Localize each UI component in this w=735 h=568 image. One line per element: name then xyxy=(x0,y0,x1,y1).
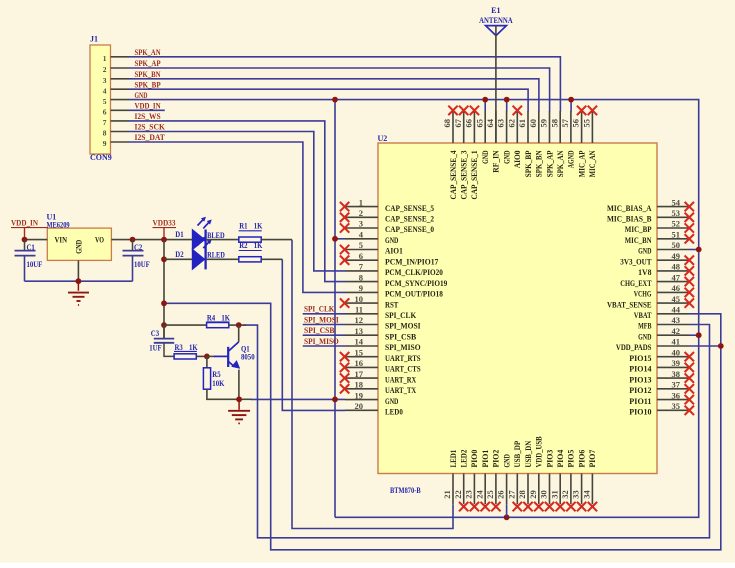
svg-text:6: 6 xyxy=(359,251,363,261)
svg-text:CON9: CON9 xyxy=(90,153,112,162)
wire antenna to U2.64 RF_IN xyxy=(495,26,497,143)
U2 pin 14 SPI_MISO stub xyxy=(345,345,378,347)
svg-text:1K: 1K xyxy=(254,222,263,231)
junction GND wire / left GND vertical xyxy=(332,397,338,403)
svg-text:MIC_AN: MIC_AN xyxy=(587,150,597,177)
svg-text:GND: GND xyxy=(638,246,651,256)
svg-text:8050: 8050 xyxy=(241,353,255,362)
U2 pin 6 no-connect X xyxy=(340,256,349,265)
capacitor C3 bottom lead to R3 row xyxy=(164,343,174,357)
U2 pin 48 1V8 stub xyxy=(657,270,689,272)
svg-text:CAP_SENSE_1: CAP_SENSE_1 xyxy=(469,151,479,200)
svg-text:SPK_BP: SPK_BP xyxy=(523,151,533,178)
svg-text:PIO1: PIO1 xyxy=(480,450,490,468)
wire SPK_AN: J1.1 to U2.58 xyxy=(129,57,560,112)
U2 pin 53 MIC_BIAS_B stub xyxy=(657,216,689,218)
svg-text:USB_DP: USB_DP xyxy=(512,441,522,468)
junction VO / C2 xyxy=(130,237,136,243)
U2 pin 54 no-connect X xyxy=(685,202,694,211)
U2 pin 4 GND stub xyxy=(345,238,378,240)
U2 pin 6 PCM_IN/PIO17 stub xyxy=(345,259,378,261)
svg-text:PIO4: PIO4 xyxy=(555,449,565,467)
svg-text:LED1: LED1 xyxy=(448,450,458,468)
svg-text:BLED: BLED xyxy=(207,231,225,240)
svg-text:36: 36 xyxy=(672,390,681,400)
svg-text:40: 40 xyxy=(672,347,681,357)
wire Q1 collector up to MFB junction xyxy=(238,325,240,342)
U2 pin 8 PCM_SYNC/PIO19 stub xyxy=(345,281,378,283)
U2 pin 35 no-connect X xyxy=(685,406,694,415)
svg-text:59: 59 xyxy=(539,119,549,128)
svg-text:18: 18 xyxy=(355,380,364,390)
svg-text:VIN: VIN xyxy=(55,235,68,245)
wire VDD33 vertical down to D2 / VBAT / R4 rows xyxy=(163,240,165,339)
svg-text:67: 67 xyxy=(453,118,463,127)
svg-text:48: 48 xyxy=(672,262,681,272)
svg-text:VDD_PADS: VDD_PADS xyxy=(616,342,652,352)
power port VDD33 stem xyxy=(163,228,165,240)
svg-text:46: 46 xyxy=(672,283,681,293)
svg-text:PIO13: PIO13 xyxy=(629,374,651,384)
U2 pin 67 CAP_SENSE_3 stub xyxy=(463,111,465,143)
svg-text:GND: GND xyxy=(385,396,398,406)
U2 pin 28 no-connect X xyxy=(523,502,532,511)
U2 pin 62 no-connect X xyxy=(513,106,522,115)
U2 pin 13 SPI_CSB stub xyxy=(345,334,378,336)
svg-text:63: 63 xyxy=(496,119,506,128)
svg-text:61: 61 xyxy=(517,119,527,128)
svg-text:1K: 1K xyxy=(254,241,263,250)
U2 pin 5 no-connect X xyxy=(340,245,349,254)
svg-text:57: 57 xyxy=(560,118,570,127)
U2 pin 62 AIO0 stub xyxy=(516,111,518,143)
U2 pin 1 no-connect X xyxy=(340,202,349,211)
svg-text:J1: J1 xyxy=(90,35,98,44)
U2 pin 12 SPI_MOSI stub xyxy=(345,324,378,326)
svg-text:GND: GND xyxy=(480,151,490,164)
wire R2 right to LED0 corner xyxy=(261,258,282,260)
svg-text:8: 8 xyxy=(103,129,107,138)
svg-text:USB_DN: USB_DN xyxy=(523,440,533,467)
svg-text:SPI_MOSI: SPI_MOSI xyxy=(304,315,339,324)
U2 pin 47 no-connect X xyxy=(685,277,694,286)
U2 pin 5 AIO1 stub xyxy=(345,249,378,251)
svg-text:CAP_SENSE_4: CAP_SENSE_4 xyxy=(448,150,458,200)
svg-text:PIO2: PIO2 xyxy=(491,450,501,468)
U2 pin 31 PIO4 stub xyxy=(559,474,561,505)
svg-text:1: 1 xyxy=(359,197,363,207)
svg-text:ANTENNA: ANTENNA xyxy=(479,16,513,25)
svg-text:PIO14: PIO14 xyxy=(629,364,652,374)
svg-text:MIC_BIAS_B: MIC_BIAS_B xyxy=(607,214,652,224)
svg-text:SPK_BP: SPK_BP xyxy=(135,80,161,89)
svg-text:MIC_BN: MIC_BN xyxy=(625,235,652,245)
wire SPI_MISO to U2.14 xyxy=(303,345,345,347)
svg-text:C3: C3 xyxy=(151,329,159,338)
connector J1 body xyxy=(90,45,111,154)
wire D2 anode xyxy=(164,258,192,260)
U2 pin 41 VDD_PADS stub xyxy=(657,345,689,347)
svg-text:GND: GND xyxy=(74,240,84,254)
junction VDD33 vertical / VBAT wire xyxy=(161,300,167,306)
svg-text:SPK_AP: SPK_AP xyxy=(544,151,554,178)
svg-text:C1: C1 xyxy=(27,243,35,252)
svg-text:22: 22 xyxy=(453,490,463,499)
wire GND left vertical x=335 xyxy=(334,100,336,518)
U2 pin 39 no-connect X xyxy=(685,363,694,372)
svg-text:VCHG: VCHG xyxy=(634,289,652,299)
junction right GND vertical / U2.42 xyxy=(696,332,702,338)
svg-text:U2: U2 xyxy=(378,134,388,143)
svg-text:3: 3 xyxy=(359,219,363,229)
U2 pin 29 VDD_USB stub xyxy=(538,474,540,505)
U2 pin 15 UART_RTS stub xyxy=(345,356,378,358)
svg-text:14: 14 xyxy=(355,337,364,347)
svg-text:PIO12: PIO12 xyxy=(629,385,651,395)
U2 pin 37 PIO12 stub xyxy=(657,388,689,390)
svg-text:53: 53 xyxy=(672,208,681,218)
wire GND tap to U2.63 xyxy=(506,100,508,112)
wire U2.26 GND down to bottom GND wire xyxy=(506,504,508,517)
svg-text:VDD_USB: VDD_USB xyxy=(534,436,544,467)
power port VDD_IN stem xyxy=(24,228,26,240)
U2 pin 63 GND stub xyxy=(506,111,508,143)
svg-text:I2S_SCK: I2S_SCK xyxy=(135,123,166,132)
svg-text:MIC_BP: MIC_BP xyxy=(625,224,652,234)
svg-text:PIO7: PIO7 xyxy=(587,449,597,467)
U2 pin 18 no-connect X xyxy=(340,384,349,393)
capacitor C2 top lead xyxy=(132,240,134,251)
regulator U1 body xyxy=(47,228,111,260)
svg-text:1: 1 xyxy=(103,54,107,63)
wire SPI_MOSI to U2.12 xyxy=(303,324,345,326)
U2 pin 15 no-connect X xyxy=(340,352,349,361)
U2 pin 32 PIO5 stub xyxy=(570,474,572,505)
U2 pin 9 PCM_OUT/PIO18 stub xyxy=(345,291,378,293)
U2 pin 29 no-connect X xyxy=(534,502,543,511)
svg-text:UART_TX: UART_TX xyxy=(385,385,417,395)
capacitor C2 bottom lead xyxy=(132,256,134,282)
capacitor C3 plates xyxy=(154,338,174,340)
svg-text:SPI_CLK: SPI_CLK xyxy=(385,310,417,320)
svg-text:11: 11 xyxy=(355,305,363,315)
U2 pin 47 CHG_EXT stub xyxy=(657,281,689,283)
svg-text:C2: C2 xyxy=(134,243,142,252)
U2 pin 60 SPK_BN stub xyxy=(538,111,540,143)
resistor R4 body xyxy=(207,323,229,328)
svg-text:BTM870-B: BTM870-B xyxy=(390,486,421,495)
junction U1 GND / bottom rail xyxy=(76,278,82,284)
svg-text:5: 5 xyxy=(103,97,107,106)
svg-text:SPI_CLK: SPI_CLK xyxy=(304,305,335,314)
junction GND rail / pin57 tap xyxy=(568,97,574,103)
U2 pin 2 CAP_SENSE_2 stub xyxy=(345,216,378,218)
svg-text:17: 17 xyxy=(355,369,364,379)
wire U1 GND bottom rail xyxy=(25,280,133,282)
connector J1 pin 8 stub xyxy=(111,131,130,133)
svg-text:60: 60 xyxy=(528,119,538,128)
junction VDD33 vertical / R4 xyxy=(161,322,167,328)
svg-text:I2S_DAT: I2S_DAT xyxy=(135,133,166,142)
svg-text:1K: 1K xyxy=(189,343,198,352)
svg-text:MIC_AP: MIC_AP xyxy=(576,151,586,178)
svg-text:PCM_OUT/PIO18: PCM_OUT/PIO18 xyxy=(385,289,443,299)
U2 pin 49 3V3_OUT stub xyxy=(657,259,689,261)
wire R4 right lead to Q1 collector junction xyxy=(229,324,239,326)
svg-text:66: 66 xyxy=(464,119,474,128)
resistor R2 label underline xyxy=(239,250,262,252)
U2 pin 16 no-connect X xyxy=(340,363,349,372)
wire SPI_CSB to U2.13 xyxy=(303,334,345,336)
U2 pin 36 no-connect X xyxy=(685,395,694,404)
U2 pin 51 MIC_BN stub xyxy=(657,238,689,240)
U2 pin 30 PIO3 stub xyxy=(549,474,551,505)
connector J1 pin 3 stub xyxy=(111,78,130,80)
connector J1 pin 2 stub xyxy=(111,67,130,69)
U2 pin 61 SPK_BP stub xyxy=(527,111,529,143)
svg-text:1K: 1K xyxy=(221,313,230,322)
wire VBAT net: VDD33 down to U2.44 VBAT xyxy=(164,303,721,550)
svg-text:65: 65 xyxy=(474,119,484,128)
svg-text:PCM_SYNC/PIO19: PCM_SYNC/PIO19 xyxy=(385,278,447,288)
antenna E1 symbol xyxy=(486,26,507,36)
svg-text:49: 49 xyxy=(672,251,681,261)
U2 pin 24 no-connect X xyxy=(481,502,490,511)
U2 pin 36 PIO11 stub xyxy=(657,399,689,401)
connector J1 pin 9 stub xyxy=(111,141,130,143)
U2 pin 55 no-connect X xyxy=(588,106,597,115)
svg-text:AIO0: AIO0 xyxy=(512,151,522,169)
svg-text:4: 4 xyxy=(103,86,107,95)
capacitor C1 bottom lead xyxy=(24,256,26,282)
svg-text:9: 9 xyxy=(103,139,107,148)
wire U2.4 GND to left GND vertical xyxy=(335,238,345,240)
wire U2.50 GND to right GND vertical xyxy=(689,249,699,251)
svg-text:PIO0: PIO0 xyxy=(469,450,479,468)
capacitor C1 plates xyxy=(15,250,36,252)
junction R4 / Q1 collector / MFB xyxy=(236,322,242,328)
U2 pin 25 PIO2 stub xyxy=(495,474,497,505)
U2 pin 45 no-connect X xyxy=(685,298,694,307)
wire U2.42 GND to right GND vertical xyxy=(689,334,699,336)
svg-text:PIO6: PIO6 xyxy=(576,450,586,468)
U2 pin 52 MIC_BP stub xyxy=(657,227,689,229)
svg-text:16: 16 xyxy=(355,358,364,368)
junction GND rail / pin65 tap xyxy=(482,97,488,103)
ground symbol below Q1 xyxy=(228,399,250,423)
U2 pin 65 GND stub xyxy=(484,111,486,143)
U2 pin 35 PIO10 stub xyxy=(657,409,689,411)
U2 pin 1 CAP_SENSE_5 stub xyxy=(345,206,378,208)
U2 pin 26 GND stub xyxy=(506,474,508,505)
U2 pin 23 no-connect X xyxy=(470,502,479,511)
svg-text:37: 37 xyxy=(672,380,681,390)
U2 pin 31 no-connect X xyxy=(556,502,565,511)
U2 pin 48 no-connect X xyxy=(685,266,694,275)
svg-text:13: 13 xyxy=(355,326,364,336)
U2 pin 52 no-connect X xyxy=(685,223,694,232)
svg-text:PIO15: PIO15 xyxy=(629,353,651,363)
svg-text:I2S_WS: I2S_WS xyxy=(135,112,162,121)
U2 pin 22 LED2 stub xyxy=(463,474,465,505)
U2 pin 3 no-connect X xyxy=(340,223,349,232)
U2 pin 66 CAP_SENSE_1 stub xyxy=(473,111,475,143)
svg-text:LED2: LED2 xyxy=(459,450,469,468)
junction VBAT vertical / U2.41 xyxy=(718,343,724,349)
svg-text:CAP_SENSE_2: CAP_SENSE_2 xyxy=(385,214,434,224)
connector J1 pin 7 stub xyxy=(111,120,130,122)
svg-text:MFB: MFB xyxy=(638,321,652,331)
resistor R4 label underline xyxy=(206,321,229,323)
wire SPI_CLK to U2.11 xyxy=(303,313,345,315)
svg-text:27: 27 xyxy=(506,490,516,499)
wire VDD33 to R4 left lead xyxy=(164,324,207,326)
svg-text:CAP_SENSE_0: CAP_SENSE_0 xyxy=(385,224,434,234)
svg-text:RST: RST xyxy=(385,299,399,309)
wire SPK_BP: J1.4 to U2.61 xyxy=(129,89,528,111)
svg-text:15: 15 xyxy=(355,347,364,357)
U2 pin 10 no-connect X xyxy=(340,298,349,307)
svg-text:12: 12 xyxy=(355,315,364,325)
svg-text:SPK_BN: SPK_BN xyxy=(135,70,161,79)
svg-text:54: 54 xyxy=(672,197,681,207)
U2 pin 16 UART_CTS stub xyxy=(345,366,378,368)
svg-text:31: 31 xyxy=(549,490,559,499)
svg-text:PIO10: PIO10 xyxy=(629,407,651,417)
svg-text:45: 45 xyxy=(672,294,681,304)
U2 pin 34 PIO7 stub xyxy=(591,474,593,505)
U2 pin 39 PIO14 stub xyxy=(657,366,689,368)
svg-text:1V8: 1V8 xyxy=(638,267,651,277)
junction GND vertical / U2.4 xyxy=(332,236,338,242)
wire GND tap to U2.57 xyxy=(570,100,572,112)
U2 pin 40 PIO15 stub xyxy=(657,356,689,358)
wire R1 right to LED1 corner xyxy=(261,239,292,241)
U2 pin 24 PIO1 stub xyxy=(484,474,486,505)
U2 pin 54 MIC_BIAS_A stub xyxy=(657,206,689,208)
svg-text:R1: R1 xyxy=(239,222,247,231)
svg-text:55: 55 xyxy=(582,119,592,128)
svg-text:UART_RTS: UART_RTS xyxy=(385,353,421,363)
junction VDD_IN / C1 xyxy=(22,237,28,243)
svg-text:3: 3 xyxy=(103,76,107,85)
svg-text:20: 20 xyxy=(355,401,364,411)
svg-text:10UF: 10UF xyxy=(27,260,43,269)
wire I2S_DAT: J1.9 to U2.9 xyxy=(129,142,345,292)
U2 pin 32 no-connect X xyxy=(566,502,575,511)
U2 pin 68 CAP_SENSE_4 stub xyxy=(452,111,454,143)
svg-text:33: 33 xyxy=(571,490,581,499)
svg-text:1UF: 1UF xyxy=(149,344,161,353)
connector J1 pin 6 stub xyxy=(111,109,130,111)
svg-text:32: 32 xyxy=(560,490,570,499)
junction GND bottom wire / U2.26 xyxy=(504,514,510,520)
U2 pin 56 no-connect X xyxy=(577,106,586,115)
svg-text:SPK_BN: SPK_BN xyxy=(534,150,544,177)
svg-text:38: 38 xyxy=(672,369,681,379)
svg-text:ME6209: ME6209 xyxy=(47,221,70,230)
U2 pin 50 GND stub xyxy=(657,249,689,251)
U2 pin 3 CAP_SENSE_0 stub xyxy=(345,227,378,229)
connector J1 pin 5 stub xyxy=(111,99,130,101)
capacitor C2 plates xyxy=(123,250,144,252)
svg-text:SPK_AN: SPK_AN xyxy=(135,48,161,57)
svg-text:3V3_OUT: 3V3_OUT xyxy=(620,256,651,266)
U2 pin 59 SPK_AP stub xyxy=(549,111,551,143)
svg-text:5: 5 xyxy=(359,240,363,250)
capacitor C3 top lead xyxy=(163,325,165,339)
wire GND tap to U2.65 xyxy=(484,100,486,112)
U2 pin 64 RF_IN stub xyxy=(495,111,497,143)
svg-text:10UF: 10UF xyxy=(134,260,150,269)
U2 pin 45 VBAT_SENSE stub xyxy=(657,302,689,304)
junction GND rail / left vertical xyxy=(332,97,338,103)
svg-text:2: 2 xyxy=(103,65,107,74)
wire SPK_AP: J1.2 to U2.59 xyxy=(129,68,550,112)
svg-text:CAP_SENSE_5: CAP_SENSE_5 xyxy=(385,203,434,213)
U2 pin 30 no-connect X xyxy=(545,502,554,511)
resistor R1 label underline xyxy=(239,230,262,232)
svg-text:44: 44 xyxy=(672,305,681,315)
U2 pin 7 PCM_CLK/PIO20 stub xyxy=(345,270,378,272)
power port VDD_IN underline xyxy=(11,227,48,229)
svg-text:7: 7 xyxy=(103,118,107,127)
resistor R3 label underline xyxy=(174,350,197,352)
connector J1 pin 4 stub xyxy=(111,88,130,90)
svg-text:UART_CTS: UART_CTS xyxy=(385,364,421,374)
svg-text:VO: VO xyxy=(95,235,104,245)
svg-text:PIO3: PIO3 xyxy=(544,450,554,468)
svg-text:SPK_AN: SPK_AN xyxy=(555,150,565,177)
U2 pin 21 LED1 stub xyxy=(452,474,454,505)
wire I2S_SCK: J1.8 to U2.7 xyxy=(129,132,345,271)
svg-text:D1: D1 xyxy=(175,230,183,239)
U2 pin 43 MFB stub xyxy=(657,324,689,326)
svg-text:R3: R3 xyxy=(175,343,183,352)
U2 pin 57 AGND stub xyxy=(570,111,572,143)
svg-text:SPI_CSB: SPI_CSB xyxy=(385,331,417,341)
svg-text:39: 39 xyxy=(672,358,681,368)
svg-text:50: 50 xyxy=(672,240,681,250)
U2 pin 58 SPK_AN stub xyxy=(559,111,561,143)
svg-text:28: 28 xyxy=(517,490,527,499)
diode D2 RLED symbol xyxy=(192,236,212,269)
svg-text:E1: E1 xyxy=(491,6,500,15)
power port VDD33 underline xyxy=(153,227,177,229)
U2 pin 34 no-connect X xyxy=(588,502,597,511)
svg-text:43: 43 xyxy=(672,315,681,325)
svg-text:GND: GND xyxy=(385,235,398,245)
connector J1 pin 1 stub xyxy=(111,56,130,58)
svg-text:SPI_MISO: SPI_MISO xyxy=(385,342,421,352)
svg-text:19: 19 xyxy=(355,390,364,400)
U2 pin 56 MIC_AP stub xyxy=(581,111,583,143)
U2 pin 28 USB_DN stub xyxy=(527,474,529,505)
wire D2 cathode to R2 xyxy=(207,258,239,260)
U2 pin 46 VCHG stub xyxy=(657,291,689,293)
wire base junction to Q1 base xyxy=(207,355,215,357)
U2 pin 20 LED0 stub xyxy=(345,409,378,411)
U2 pin 40 no-connect X xyxy=(685,352,694,361)
svg-text:GND: GND xyxy=(638,331,651,341)
transistor Q1 symbol xyxy=(228,342,240,369)
svg-text:68: 68 xyxy=(442,119,452,128)
U2 pin 55 MIC_AN stub xyxy=(591,111,593,143)
svg-text:R4: R4 xyxy=(207,313,215,322)
svg-text:UART_RX: UART_RX xyxy=(385,374,417,384)
svg-text:VBAT_SENSE: VBAT_SENSE xyxy=(607,299,652,309)
wire SPK_BN: J1.3 to U2.60 xyxy=(129,79,539,112)
